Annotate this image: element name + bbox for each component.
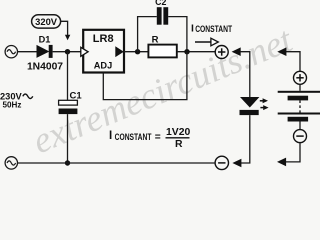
label I constant (current) <box>191 24 232 35</box>
terminal + (output plus) <box>215 46 228 59</box>
wire D1 cathode to node <box>53 51 84 53</box>
wire C2 left branch up <box>138 17 157 52</box>
svg-text:CONSTANT: CONSTANT <box>115 132 152 143</box>
regulator U1 LR8 <box>81 30 124 73</box>
wire bottom rail <box>18 162 216 164</box>
wire LED anode branch <box>240 52 250 98</box>
svg-text:1V20: 1V20 <box>166 127 190 138</box>
svg-text:320V: 320V <box>35 16 58 27</box>
pin IN arrow <box>81 47 88 56</box>
LED D2 <box>240 97 269 115</box>
battery BT1 <box>278 71 320 142</box>
svg-text:C1: C1 <box>70 91 83 102</box>
capacitor C2 <box>157 7 168 25</box>
320V label oval <box>32 15 61 28</box>
svg-text:50Hz: 50Hz <box>3 101 22 110</box>
junction dot LR8 output / C2 left <box>135 49 140 54</box>
terminal - (output minus) <box>215 156 228 169</box>
battery minus circle <box>294 130 307 143</box>
svg-text:ADJ: ADJ <box>94 60 112 70</box>
svg-text:LR8: LR8 <box>93 33 114 45</box>
label 230V ~ <box>0 92 33 102</box>
svg-text:D1: D1 <box>39 34 51 44</box>
battery plate short - <box>288 96 309 101</box>
battery plate long + <box>278 113 320 115</box>
svg-text:=: = <box>155 132 161 143</box>
wire <box>299 84 301 91</box>
arrow current direction <box>195 38 218 46</box>
ac source terminal (top, line) <box>5 46 17 58</box>
pin OUT arrow <box>115 46 124 57</box>
junction dot R output / ADJ sense <box>184 49 189 54</box>
battery plate long + <box>278 91 320 93</box>
arrow into terminal - from LED wire <box>232 159 241 168</box>
capacitor C1 <box>59 100 78 114</box>
wire C2 right branch down <box>168 17 187 52</box>
formula I constant = 1V20 / R <box>109 127 190 150</box>
arrow into terminal + from LED wire <box>232 47 241 56</box>
wire node down to C1 <box>67 52 69 101</box>
wire R to terminal <box>177 51 216 53</box>
wire 320V pointer <box>61 21 68 35</box>
led emission arrows <box>260 100 264 102</box>
wire C1 to bottom rail <box>67 114 69 163</box>
wire ac-top to D1 anode <box>18 51 38 53</box>
junction dot C1/bottom rail <box>65 160 70 165</box>
ac source terminal (bottom, neutral) <box>5 157 17 169</box>
node after D1 (junction dot) <box>65 49 70 54</box>
wire ADJ feedback <box>103 52 187 100</box>
svg-text:CONSTANT: CONSTANT <box>195 24 232 35</box>
dashed cell continuation <box>299 100 301 112</box>
svg-text:R: R <box>152 35 159 46</box>
svg-text:R: R <box>175 139 183 150</box>
svg-text:I: I <box>109 130 112 142</box>
arrow battery minus to terminal <box>277 158 286 167</box>
diode D1 <box>37 45 53 58</box>
resistor R <box>148 45 176 58</box>
svg-text:C2: C2 <box>155 0 166 7</box>
arrow battery plus to terminal <box>277 47 286 56</box>
wire battery branch top <box>286 52 300 72</box>
wire LR8 out to node <box>124 51 149 53</box>
wire LED cathode down <box>241 115 250 163</box>
arrow 320V pointing at node <box>65 35 70 40</box>
svg-text:1N4007: 1N4007 <box>27 61 63 72</box>
wire <box>299 122 301 130</box>
wire battery branch bottom <box>286 143 301 162</box>
battery plate short - <box>288 117 309 122</box>
svg-text:I: I <box>191 24 194 35</box>
